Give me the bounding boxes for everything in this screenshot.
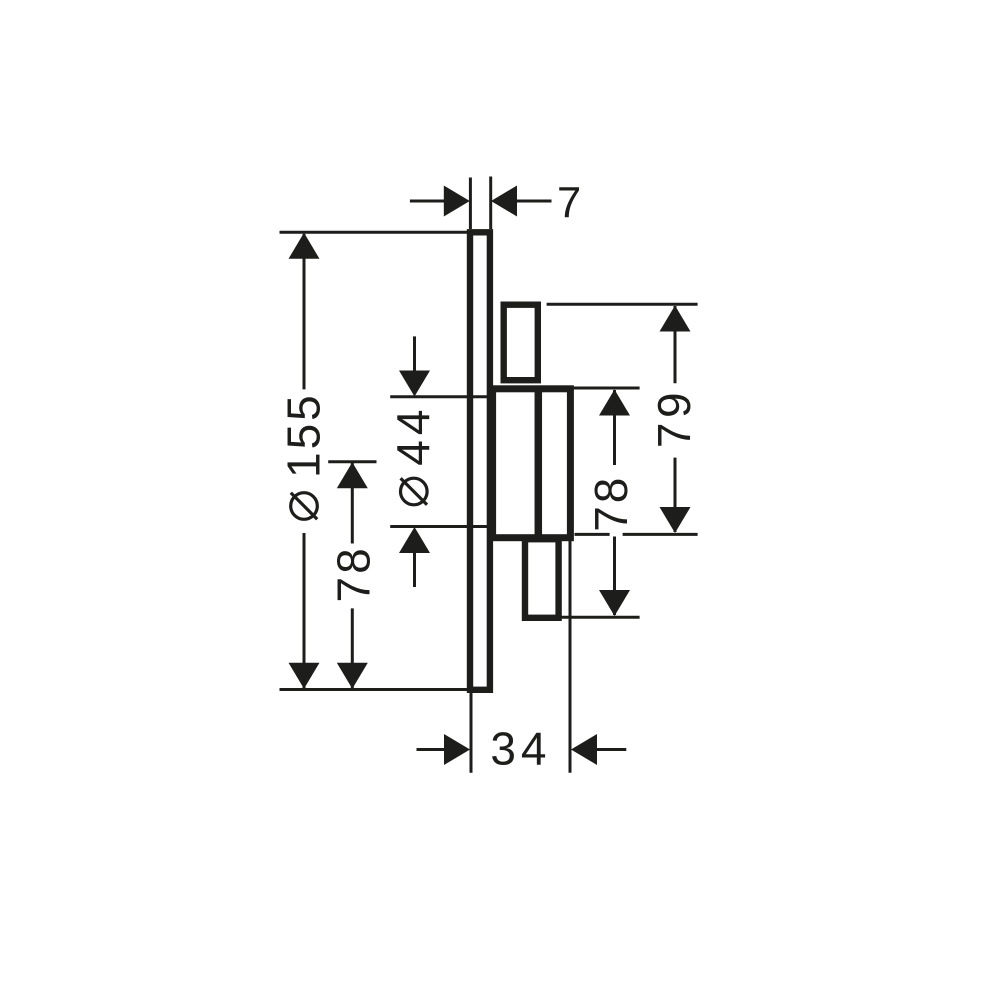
dim-44 label	[387, 405, 439, 505]
dim-7 right extension line	[489, 177, 492, 230]
dim-34 left extension line	[470, 693, 473, 773]
dim-78-right line lower segment	[613, 537, 616, 616]
dim-44 lower tail line	[413, 545, 416, 587]
dim-79 top arrowhead	[660, 306, 691, 332]
dim-78-right line upper segment	[613, 390, 616, 465]
dim-7 right arrowhead	[491, 186, 517, 217]
dim-155 line lower segment	[303, 533, 306, 688]
svg-text:44: 44	[387, 405, 439, 466]
dim-155 top extension line	[280, 231, 468, 234]
dim-155 line upper segment	[303, 234, 306, 389]
dim-34 right extension line	[569, 536, 572, 773]
dim-79 bottom extension line right part	[623, 533, 698, 536]
dim-78-right bottom arrowhead	[599, 590, 630, 616]
dim-79 line upper segment	[674, 306, 677, 383]
dim-44 top arrowhead (points down)	[399, 371, 430, 397]
dim-78-left top arrowhead	[337, 462, 368, 488]
svg-text:79: 79	[648, 388, 700, 448]
dim-79 bottom arrowhead	[660, 507, 691, 533]
dim-155 bottom extension line (shared with left dim-78)	[280, 688, 468, 691]
dim-78-left bottom arrowhead	[337, 663, 368, 689]
dim-34 label	[490, 723, 551, 775]
dim-44 upper tail line	[413, 336, 416, 380]
dim-34 right leader line	[596, 748, 626, 751]
dim-155 top arrowhead	[289, 233, 320, 259]
dim-34 left arrowhead	[444, 734, 470, 765]
dim-78-right bottom extension line	[560, 616, 639, 619]
valve body	[493, 389, 571, 538]
svg-text:78: 78	[585, 475, 637, 532]
svg-text:34: 34	[490, 723, 551, 775]
lower handle knob	[525, 539, 559, 618]
dim-78-left line upper segment	[351, 463, 354, 544]
svg-text:7: 7	[557, 179, 581, 227]
dim-34 left leader line	[417, 748, 447, 751]
dim-7 right leader line	[516, 200, 552, 203]
dim-78-left label	[328, 545, 380, 602]
svg-text:78: 78	[328, 545, 380, 602]
dim-79 label	[648, 388, 700, 448]
escutcheon plate	[470, 232, 490, 690]
dim-78-right top arrowhead	[599, 390, 630, 416]
dim-79 bottom extension line left part	[575, 533, 610, 536]
dim-44 bottom extension line	[390, 525, 495, 528]
svg-text:155: 155	[277, 392, 329, 478]
dim-7 left arrowhead	[444, 186, 470, 217]
valve body divider	[535, 389, 543, 538]
dim-155 bottom arrowhead	[289, 663, 320, 689]
dim-155 label	[277, 392, 329, 519]
dim-7 left extension line	[469, 178, 472, 230]
dim-78-right label	[585, 475, 637, 532]
dim-78-left line lower segment	[351, 608, 354, 688]
dim-79 line lower segment	[674, 458, 677, 532]
dim-78-left top tick line	[328, 460, 376, 463]
dim-79 top extension line	[547, 303, 698, 306]
dim-34 right arrowhead	[571, 734, 597, 765]
top handle knob	[504, 305, 538, 381]
dim-7 left leader line	[410, 200, 446, 203]
dim-44 bottom arrowhead (points up)	[399, 527, 430, 553]
dim-44 top extension line	[390, 395, 495, 398]
dim-78-right top extension line	[563, 387, 640, 390]
dim-7 label	[557, 179, 581, 227]
